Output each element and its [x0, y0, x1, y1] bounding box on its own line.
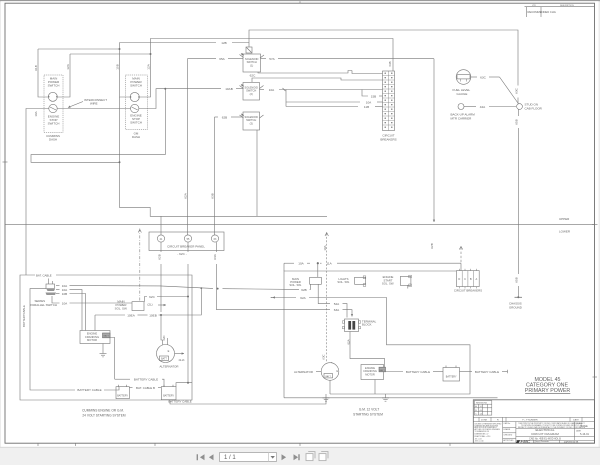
wire 62B into sw3 — [215, 116, 219, 118]
node 10E — [200, 287, 202, 289]
svg-text:62C: 62C — [250, 74, 256, 78]
wire sps 10A mid — [56, 289, 60, 291]
wire 12B top feed — [120, 42, 217, 44]
wire m2 ground — [374, 380, 376, 395]
snapshot icon 1 — [306, 452, 315, 461]
circuit breaker strip CB1 — [383, 71, 395, 131]
wire 65B stud to ground — [517, 109, 519, 116]
tick junction 10A — [283, 88, 286, 91]
svg-text:BATTERY: BATTERY — [163, 395, 174, 398]
svg-text:A: A — [476, 277, 478, 281]
wire 52A — [318, 298, 330, 304]
wire m1 batt to battery cable — [110, 338, 115, 380]
ground m1 — [100, 353, 107, 355]
notice paragraph — [518, 422, 586, 429]
breaker 55 — [184, 235, 191, 242]
engine cranking motor M2 — [361, 365, 384, 380]
solenoid switch 3 — [243, 112, 260, 130]
svg-text:ALTERNATOR: ALTERNATOR — [294, 370, 313, 374]
drawn cells — [515, 422, 517, 444]
svg-text:BAT. CABLE: BAT. CABLE — [36, 274, 52, 278]
wire row 15B — [362, 90, 368, 97]
title block outline — [473, 400, 594, 443]
wire 62C drop battery bus — [187, 242, 189, 252]
lights sol sw SOL3 — [355, 277, 366, 284]
wire dashed riser with arrow — [325, 233, 328, 237]
svg-text:D: D — [458, 277, 460, 281]
wire long drop to lower bus — [120, 97, 328, 216]
wire sw3 bottom drop — [256, 130, 258, 216]
wire gm sol coil feed — [317, 263, 319, 277]
page number combo — [220, 453, 277, 462]
svg-text:MOTOR: MOTOR — [87, 338, 97, 342]
svg-text:BREAKERS: BREAKERS — [380, 137, 396, 141]
svg-text:SWITCH: SWITCH — [48, 122, 60, 126]
svg-text:65B: 65B — [515, 277, 519, 283]
svg-text:10EA: 10EA — [127, 314, 136, 318]
blade contacts S/2 — [240, 86, 244, 89]
sol1 arrow stub — [158, 304, 166, 306]
svg-text:5-16-91: 5-16-91 — [580, 432, 589, 436]
wire alt output arrow — [175, 353, 184, 355]
circuit breaker panel PB1 — [149, 232, 224, 251]
svg-text:MTR CARRIER: MTR CARRIER — [451, 116, 473, 120]
switch contact S2b engine stop — [131, 104, 139, 112]
svg-text:SWITCH: SWITCH — [130, 84, 142, 88]
toolbar background — [0, 447, 600, 465]
wire 63C riser segs — [517, 70, 519, 86]
node 62C bus end — [187, 382, 189, 384]
svg-text:NONE: NONE — [580, 424, 588, 428]
svg-text:61B: 61B — [34, 65, 38, 71]
fuel level gauge G1 — [456, 70, 471, 85]
header band — [473, 416, 594, 418]
wire 61B left drop — [38, 49, 48, 97]
wire 10EA 10EB bus — [95, 314, 125, 316]
svg-text:12B: 12B — [221, 41, 227, 45]
svg-text:BATT: BATT — [380, 369, 386, 372]
left notes cell — [502, 417, 504, 443]
chassis ground — [517, 296, 519, 298]
svg-text:- 62C -: - 62C - — [177, 252, 186, 256]
part number row — [516, 436, 595, 438]
ground alt2 — [323, 397, 330, 399]
svg-text:1 / 1: 1 / 1 — [224, 455, 236, 461]
svg-text:11A: 11A — [326, 262, 332, 266]
svg-text:DRAWN: DRAWN — [503, 428, 510, 431]
svg-text:SOL. SW.: SOL. SW. — [337, 280, 350, 284]
svg-text:DASH: DASH — [132, 135, 140, 139]
stud on cab floor — [517, 104, 523, 110]
svg-text:65B: 65B — [515, 119, 519, 125]
wire 61A run — [38, 48, 120, 50]
fold tick bottom a — [37, 443, 39, 446]
wire 12A drop gm — [140, 54, 151, 97]
svg-text:BATT: BATT — [161, 358, 167, 361]
svg-text:BATTERY: BATTERY — [446, 376, 457, 379]
wire dashed riser breakers — [459, 247, 462, 250]
wire W down-around — [31, 89, 165, 163]
terminal block TB1 — [345, 319, 359, 332]
svg-text:63B: 63B — [388, 61, 392, 66]
wire 12A drop cummins — [58, 54, 71, 97]
gm alternator A2 — [321, 363, 339, 381]
wire 62C sol top — [145, 297, 148, 302]
svg-text:BATTERY: BATTERY — [117, 395, 128, 398]
svg-text:42A: 42A — [480, 105, 486, 109]
svg-text:62B: 62B — [157, 254, 161, 260]
fold tick bottom b — [75, 443, 77, 446]
first page button — [197, 454, 205, 460]
svg-text:PARALLEL SWITCH: PARALLEL SWITCH — [31, 303, 58, 307]
svg-text:12A: 12A — [147, 63, 151, 69]
svg-text:10A: 10A — [62, 302, 68, 306]
wire 57A drop — [433, 59, 435, 222]
main power sol sw gm SOL2 — [310, 277, 322, 284]
svg-text:62A: 62A — [300, 296, 306, 300]
svg-text:10B: 10B — [62, 292, 68, 296]
back-up alarm motor B1 — [458, 104, 464, 110]
svg-text:GAUGE: GAUGE — [457, 92, 468, 96]
svg-text:SOL. SW.: SOL. SW. — [115, 307, 128, 311]
wire 62C below panel — [160, 242, 162, 252]
svg-text:62C: 62C — [162, 335, 166, 340]
wire 65A drop to panel — [186, 59, 188, 235]
drawing title — [516, 428, 575, 430]
scale date cells — [573, 422, 575, 441]
svg-text:10AB: 10AB — [225, 87, 233, 91]
svg-text:F + F NUMBER: F + F NUMBER — [522, 419, 538, 421]
key symbol K1 — [246, 47, 252, 53]
svg-text:63A: 63A — [334, 308, 340, 312]
upper lower fold line — [5, 224, 595, 226]
switch contact S1a — [48, 92, 57, 101]
node W2 — [119, 161, 121, 163]
wire bt2 bottom interconnect cable — [170, 398, 326, 404]
svg-text:62A: 62A — [346, 339, 350, 344]
svg-text:APPROVED: APPROVED — [503, 439, 514, 442]
battery BT2 — [161, 387, 176, 400]
svg-text:63C: 63C — [321, 354, 325, 359]
svg-text:BATT: BATT — [103, 335, 109, 338]
svg-text:CIRCUIT DIAGRAM: CIRCUIT DIAGRAM — [531, 432, 559, 436]
svg-text:BATTERY CABLE: BATTERY CABLE — [134, 378, 158, 382]
svg-text:CHECKED: CHECKED — [503, 435, 512, 437]
node J2 — [150, 53, 152, 55]
12V system enclosure — [284, 271, 457, 398]
wire alt2 left stub — [316, 371, 321, 373]
svg-text:63C: 63C — [480, 76, 486, 80]
wire bt2 right up — [176, 383, 192, 387]
wire 63A below panel — [216, 242, 218, 252]
svg-text:11B: 11B — [364, 105, 369, 109]
wire 62C top — [252, 78, 383, 82]
batt terminal a1 — [160, 356, 169, 361]
svg-text:BATT: BATT — [325, 375, 331, 378]
wire tb to motor — [350, 332, 385, 368]
svg-text:UPPER: UPPER — [559, 217, 570, 221]
node 10eb-alt — [160, 314, 162, 316]
svg-text:10A: 10A — [323, 245, 327, 250]
fold tick right b — [593, 376, 598, 378]
wire 65A — [187, 58, 216, 60]
svg-text:DATE: DATE — [573, 418, 579, 421]
svg-text:TOLERANCES ON: TOLERANCES ON — [475, 430, 490, 433]
wire 12B riser to breakers — [151, 39, 394, 72]
wire sps bottom 10A to sol — [52, 296, 60, 303]
battery BT3 — [443, 368, 460, 382]
svg-text:10A: 10A — [366, 100, 372, 104]
revision strip header — [525, 6, 595, 8]
fold tick top — [299, 1, 301, 3]
svg-text:BATTERY CABLE: BATTERY CABLE — [77, 388, 101, 392]
wire 63A from panel — [217, 289, 331, 310]
fold tick bottom d — [299, 443, 301, 446]
prev page button — [209, 454, 214, 460]
node sps bus — [217, 288, 219, 290]
fmc logo — [516, 439, 531, 444]
svg-text:DASH: DASH — [49, 138, 57, 142]
breaker 63 — [211, 235, 218, 242]
svg-text:SWITCH: SWITCH — [48, 84, 60, 88]
wire m2 to battery — [386, 371, 404, 373]
svg-text:57A: 57A — [269, 57, 275, 61]
node W1 — [164, 88, 166, 90]
svg-text:63A: 63A — [213, 253, 217, 259]
svg-text:BATTERY CABLE: BATTERY CABLE — [475, 370, 499, 374]
svg-text:BLOCK: BLOCK — [362, 323, 372, 327]
wire 10A 11A feed — [284, 262, 294, 264]
wire m1 ground — [102, 344, 104, 354]
svg-text:65A: 65A — [219, 57, 225, 61]
fold tick left — [3, 161, 8, 163]
gm bottom edge — [284, 397, 498, 399]
svg-text:CAB FLOOR: CAB FLOOR — [525, 106, 543, 110]
svg-text:C: C — [464, 277, 466, 281]
solenoid switch 2 — [243, 83, 260, 101]
svg-text:BATTERYCABLE: BATTERYCABLE — [22, 305, 26, 327]
wire start sol loop to battery bus — [318, 298, 470, 395]
svg-text:BATTERY CABLE: BATTERY CABLE — [406, 370, 430, 374]
wire 62A alarm — [464, 106, 476, 108]
wire riser breaker 41 — [160, 216, 162, 235]
svg-text:CAD No.: CAD No. — [503, 422, 511, 425]
wire battery cable bus 2 — [115, 378, 130, 380]
wire alt2 ground — [329, 380, 331, 394]
svg-text:15B: 15B — [371, 94, 377, 98]
node J1 — [119, 48, 121, 50]
main power switch S2 box (gm dash) — [126, 75, 148, 130]
interconnect wire — [57, 108, 130, 110]
engine cranking motor M1 — [80, 331, 110, 344]
svg-text:G.M. 12 VOLT: G.M. 12 VOLT — [359, 408, 379, 412]
svg-text:WIRE: WIRE — [90, 102, 98, 106]
svg-text:SWITCH: SWITCH — [130, 121, 142, 125]
wire 10EA drop to motor — [94, 315, 96, 331]
revision grid — [474, 401, 492, 416]
svg-text:12A: 12A — [66, 63, 70, 69]
wire sps left to battery bus — [30, 289, 75, 390]
wire 57A — [261, 58, 267, 60]
wire 62B drop to panel — [214, 117, 216, 235]
circuit breakers 4-pack CB2 — [457, 271, 480, 287]
fold tick right — [592, 224, 598, 226]
node 62C — [187, 296, 189, 298]
svg-text:BAT. CABLE B: BAT. CABLE B — [136, 386, 155, 390]
breaker 41 — [157, 235, 164, 242]
svg-text:GROUND: GROUND — [509, 305, 522, 309]
svg-text:DESCRIPTION: DESCRIPTION — [560, 5, 574, 7]
svg-text:FMC: FMC — [521, 439, 531, 444]
svg-text:E: E — [168, 349, 170, 353]
svg-text:24 VOLT STARTING SYSTEM: 24 VOLT STARTING SYSTEM — [82, 413, 126, 417]
next page button — [282, 454, 287, 460]
svg-text:LTR: LTR — [532, 5, 536, 7]
solenoid switch 1 — [243, 54, 261, 72]
wire 65A into breaker 55 — [187, 234, 189, 236]
svg-text:(2L): (2L) — [147, 303, 152, 307]
batt terminal m2 — [379, 367, 386, 372]
svg-text:MOTOR: MOTOR — [365, 372, 375, 376]
wire bt1 to bt2 — [129, 387, 132, 389]
wire bt3 out cable — [460, 371, 473, 373]
wire gm stop loop W — [139, 89, 165, 109]
svg-text:62C: 62C — [149, 295, 155, 299]
svg-text:63C: 63C — [514, 87, 518, 93]
wire alt top pins — [161, 315, 163, 345]
svg-text:CIRCUIT BREAKER PANEL: CIRCUIT BREAKER PANEL — [167, 245, 205, 249]
engine start sol sw SOL4 — [400, 277, 411, 286]
fold tick bottom e — [449, 443, 451, 446]
svg-text:63B: 63B — [211, 193, 215, 199]
wire 10AB into sw2 — [165, 88, 221, 90]
svg-text:CUMMINS ENGINE OR G.M.: CUMMINS ENGINE OR G.M. — [82, 409, 124, 413]
24V system enclosure — [20, 275, 192, 400]
switch contact S1b engine stop — [49, 104, 57, 112]
svg-text:RECOMMENDED CHG: RECOMMENDED CHG — [528, 10, 556, 14]
svg-text:Division: Division — [535, 443, 541, 445]
wire 10A right of sw2 — [260, 89, 265, 91]
wire 10AB left drop to battery box — [26, 109, 49, 276]
wire branch to breaker rows — [285, 90, 287, 107]
snapshot icon 2 — [319, 452, 328, 461]
wire sps 10A long feed to gm sol — [56, 285, 60, 287]
drawing number — [559, 440, 561, 443]
main power solenoid SOL1 — [132, 302, 144, 311]
svg-text:ZONE: ZONE — [481, 419, 488, 421]
switch contact S2a — [130, 92, 139, 101]
wire 63C gauge — [471, 76, 477, 78]
battery BT1 — [116, 387, 129, 399]
wire alt2 top pins — [331, 362, 333, 363]
fold tick bottom c — [154, 443, 156, 446]
svg-text:10EB: 10EB — [149, 314, 157, 318]
svg-text:10A: 10A — [269, 88, 275, 92]
alternator A1 — [157, 345, 175, 363]
wire sps 10B — [56, 293, 60, 295]
svg-text:SOL. SW.: SOL. SW. — [382, 282, 395, 286]
svg-text:B: B — [470, 277, 472, 281]
svg-text:ALTERNATOR: ALTERNATOR — [160, 365, 179, 369]
wire 62A lower — [271, 297, 273, 299]
blade contacts S/1 — [240, 55, 244, 58]
svg-text:2457033 B: 2457033 B — [564, 440, 579, 444]
wire 10B drop gm — [120, 43, 131, 98]
series parallel switch SP1 — [46, 284, 55, 289]
svg-text:10B: 10B — [116, 64, 120, 70]
blade contacts S/3 — [240, 115, 244, 118]
wire 63C top run to stud — [249, 30, 518, 70]
svg-text:(2): (2) — [250, 92, 253, 96]
svg-text:(3): (3) — [250, 121, 253, 125]
svg-text:62B: 62B — [301, 288, 307, 292]
node gm feed — [317, 262, 319, 264]
last page button — [294, 454, 300, 460]
svg-text:62B: 62B — [222, 116, 228, 120]
svg-text:10A: 10A — [298, 262, 304, 266]
svg-text:LOWER: LOWER — [559, 230, 571, 234]
svg-text:SOL. SW.: SOL. SW. — [289, 283, 302, 287]
wire 57B to breakers — [258, 71, 352, 74]
svg-text:10A: 10A — [34, 111, 38, 116]
svg-text:52A: 52A — [334, 302, 340, 306]
svg-text:STARTING SYSTEM: STARTING SYSTEM — [353, 412, 383, 416]
svg-text:.XXX ± .010: .XXX ± .010 — [475, 441, 484, 443]
sol1 plunger centerline — [139, 229, 141, 302]
svg-text:(1): (1) — [250, 63, 253, 67]
svg-text:42-21: 42-21 — [179, 359, 186, 362]
wire diagonal to stud — [500, 77, 519, 104]
svg-text:62A: 62A — [184, 192, 188, 198]
svg-text:BATTERY CABLE: BATTERY CABLE — [168, 400, 191, 404]
main power switch S1 box (cummins dash) — [44, 75, 63, 133]
wire start sol bottom stub — [407, 285, 409, 288]
wire 12A run — [70, 53, 151, 55]
svg-text:CIRCUIT BREAKERS: CIRCUIT BREAKERS — [454, 289, 482, 293]
wire row 11B — [286, 106, 358, 108]
batt terminal m1 — [103, 333, 111, 338]
svg-text:62B: 62B — [430, 243, 434, 249]
